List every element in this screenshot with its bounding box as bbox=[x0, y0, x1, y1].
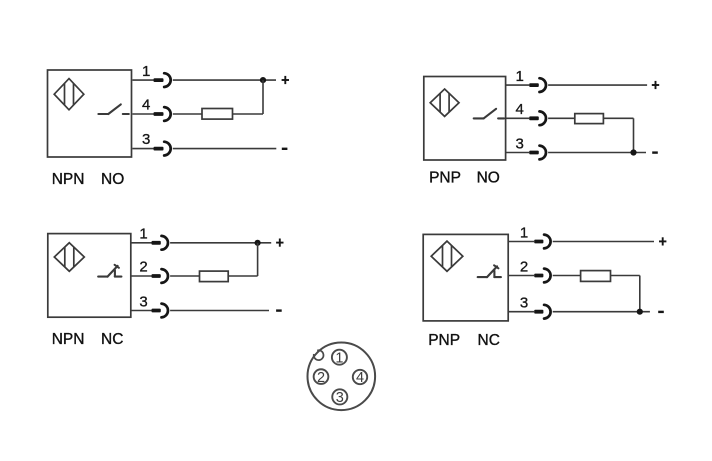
svg-text:4: 4 bbox=[142, 97, 150, 114]
terminal - (NPN NO) bbox=[282, 148, 288, 150]
NPN NO bbox=[52, 171, 125, 188]
wire 4 to load (NPN NO) bbox=[173, 113, 202, 115]
wire 1 stub (PNP NC) bbox=[508, 241, 534, 243]
vertical wire to junction (NPN NO) bbox=[262, 80, 264, 114]
connector plug pin 4 (PNP NO) bbox=[529, 111, 546, 125]
wire load to corner (PNP NC) bbox=[611, 275, 640, 277]
svg-text:1: 1 bbox=[520, 224, 528, 241]
svg-text:4: 4 bbox=[356, 370, 364, 386]
wire 1 stub (NPN NC) bbox=[131, 242, 152, 244]
connector plug pin 3 (NPN NO) bbox=[154, 142, 171, 156]
svg-text:3: 3 bbox=[520, 295, 528, 312]
connector plug pin 1 (PNP NO) bbox=[529, 78, 546, 92]
wire 4 to load (PNP NO) bbox=[548, 117, 575, 119]
svg-text:3: 3 bbox=[142, 131, 150, 148]
NC switch contact (NPN NC) bbox=[98, 265, 121, 277]
svg-text:2: 2 bbox=[520, 258, 528, 275]
NO switch contact (PNP NO) bbox=[474, 109, 504, 119]
connector pin 1 bbox=[332, 350, 347, 367]
wire 2 to load (NPN NC) bbox=[170, 275, 199, 277]
connector pin 4 bbox=[353, 370, 367, 386]
connector plug pin 4 (NPN NO) bbox=[154, 107, 171, 121]
svg-text:NO: NO bbox=[101, 171, 124, 188]
wire 3 to - (PNP NC) bbox=[553, 311, 650, 313]
M12 connector face circle bbox=[308, 343, 376, 411]
wire 3 stub (NPN NC) bbox=[131, 310, 152, 312]
NO switch contact (NPN NO) bbox=[98, 104, 128, 114]
terminal + (PNP NC) bbox=[659, 237, 666, 245]
junction node (NPN NO wire1) bbox=[260, 77, 266, 83]
vertical wire to junction (NPN NC) bbox=[257, 243, 259, 276]
wire 1 to + (NPN NO) bbox=[173, 79, 276, 81]
vertical wire to junction (PNP NC) bbox=[639, 276, 641, 312]
NC switch contact (PNP NC) bbox=[478, 265, 501, 277]
svg-text:NC: NC bbox=[101, 331, 123, 348]
svg-text:1: 1 bbox=[516, 68, 524, 85]
wire 2 stub (PNP NC) bbox=[508, 275, 534, 277]
sensor body box (NPN NC) bbox=[48, 234, 131, 318]
connector keying notch bbox=[314, 350, 324, 360]
sensor body box (NPN NO) bbox=[48, 70, 132, 157]
load resistor (PNP NO) bbox=[575, 114, 604, 124]
svg-text:3: 3 bbox=[516, 135, 524, 152]
sensor body box (PNP NC) bbox=[423, 234, 508, 321]
PNP NC bbox=[428, 332, 500, 349]
junction node (PNP NC wire3) bbox=[637, 309, 643, 315]
connector plug pin 1 (NPN NC) bbox=[152, 236, 168, 250]
connector plug pin 3 (NPN NC) bbox=[152, 304, 168, 318]
svg-text:NPN: NPN bbox=[52, 331, 85, 348]
svg-text:NC: NC bbox=[478, 332, 500, 349]
terminal - (NPN NC) bbox=[276, 309, 282, 311]
svg-text:1: 1 bbox=[139, 226, 147, 243]
wire 3 to - (PNP NO) bbox=[548, 152, 646, 154]
wire 1 to + (PNP NO) bbox=[548, 84, 647, 86]
svg-text:1: 1 bbox=[335, 350, 343, 366]
connector pin 3 bbox=[332, 389, 347, 406]
connector plug pin 3 (PNP NO) bbox=[529, 146, 546, 160]
sensor optic symbol (NPN NO) bbox=[54, 79, 84, 110]
wire 1 to + (PNP NC) bbox=[553, 241, 654, 243]
wire 3 to - (NPN NO) bbox=[173, 148, 276, 150]
svg-text:2: 2 bbox=[317, 370, 325, 386]
svg-text:PNP: PNP bbox=[429, 170, 461, 187]
wire 1 stub (PNP NO) bbox=[506, 84, 530, 86]
terminal + (NPN NC) bbox=[276, 239, 283, 247]
wire load to corner (NPN NO) bbox=[233, 113, 264, 115]
svg-text:3: 3 bbox=[139, 293, 147, 310]
wire 4 stub (NPN NO) bbox=[132, 113, 153, 115]
connector plug pin 2 (PNP NC) bbox=[534, 269, 550, 283]
terminal - (PNP NC) bbox=[658, 311, 664, 313]
connector plug pin 1 (PNP NC) bbox=[534, 235, 550, 249]
load resistor (PNP NC) bbox=[581, 271, 611, 282]
svg-text:4: 4 bbox=[516, 101, 524, 118]
vertical wire to junction (PNP NO) bbox=[633, 118, 635, 152]
svg-text:3: 3 bbox=[336, 390, 344, 406]
wire 3 to - (NPN NC) bbox=[170, 310, 269, 312]
connector plug pin 1 (NPN NO) bbox=[154, 73, 171, 87]
wire 3 stub (NPN NO) bbox=[132, 148, 153, 150]
junction node (NPN NC wire1) bbox=[255, 240, 261, 246]
sensor optic symbol (PNP NO) bbox=[430, 89, 459, 116]
wire load to corner (PNP NO) bbox=[603, 117, 633, 119]
PNP NO bbox=[429, 170, 500, 187]
load resistor (NPN NO) bbox=[202, 109, 233, 120]
connector plug pin 3 (PNP NC) bbox=[534, 305, 550, 319]
load resistor (NPN NC) bbox=[200, 271, 229, 282]
svg-text:PNP: PNP bbox=[428, 332, 460, 349]
svg-text:NPN: NPN bbox=[52, 171, 85, 188]
svg-text:2: 2 bbox=[139, 259, 147, 276]
svg-text:NO: NO bbox=[477, 170, 500, 187]
sensor optic symbol (PNP NC) bbox=[431, 241, 463, 271]
terminal + (PNP NO) bbox=[652, 81, 659, 89]
junction node (PNP NO wire3) bbox=[630, 149, 636, 155]
wire 3 stub (PNP NC) bbox=[508, 311, 534, 313]
connector pin 2 bbox=[314, 369, 329, 386]
sensor optic symbol (NPN NC) bbox=[54, 243, 84, 272]
NPN NC bbox=[52, 331, 124, 348]
terminal + (NPN NO) bbox=[282, 76, 289, 84]
wire 2 to load (PNP NC) bbox=[553, 275, 581, 277]
wire 2 stub (NPN NC) bbox=[131, 275, 152, 277]
sensor body box (PNP NO) bbox=[424, 77, 506, 161]
terminal - (PNP NO) bbox=[652, 151, 658, 153]
wire 1 stub (NPN NO) bbox=[132, 79, 153, 81]
wire 4 stub (PNP NO) bbox=[506, 117, 530, 119]
svg-text:1: 1 bbox=[142, 63, 150, 80]
wire 1 to + (NPN NC) bbox=[170, 242, 271, 244]
wire 3 stub (PNP NO) bbox=[506, 152, 530, 154]
connector plug pin 2 (NPN NC) bbox=[152, 269, 168, 283]
wire load to corner (NPN NC) bbox=[228, 275, 257, 277]
